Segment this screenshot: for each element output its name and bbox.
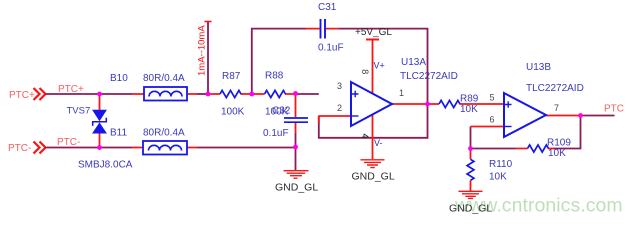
resistor R89 <box>428 94 505 116</box>
svg-text:5: 5 <box>490 93 495 103</box>
svg-text:C32: C32 <box>272 106 291 117</box>
junction node R87/R88 <box>249 92 254 97</box>
svg-text:B10: B10 <box>110 73 128 84</box>
capacitor C32 <box>263 94 308 148</box>
svg-text:8: 8 <box>360 69 370 74</box>
svg-text:PTC: PTC <box>604 104 624 115</box>
svg-text:GND_GL: GND_GL <box>352 171 395 183</box>
svg-text:R89: R89 <box>460 94 479 105</box>
svg-text:GND_GL: GND_GL <box>449 203 492 215</box>
junction node U13B output <box>578 113 583 118</box>
bead B10 <box>110 73 197 101</box>
op-amp U13A <box>319 57 458 159</box>
TVS diode TVS7 SMBJ8.0CA <box>67 94 133 171</box>
wire current probe 1mA--10mA <box>197 22 212 95</box>
svg-text:80R/0.4A: 80R/0.4A <box>143 128 185 139</box>
ground GND_GL under U13A <box>352 160 395 183</box>
svg-text:0.1uF: 0.1uF <box>318 43 344 54</box>
power +5V_GL <box>355 27 392 93</box>
svg-text:B11: B11 <box>110 128 127 139</box>
junction node TVS top <box>97 92 102 97</box>
svg-text:10K: 10K <box>548 148 566 159</box>
svg-text:U13B: U13B <box>526 62 551 73</box>
wire R88 to pin3 <box>296 93 319 95</box>
port PTC+ <box>9 88 46 101</box>
capacitor C31 <box>306 2 344 54</box>
wire PTC+ left <box>46 93 133 95</box>
svg-text:+5V_GL: +5V_GL <box>355 27 392 38</box>
resistor R110 <box>467 149 513 192</box>
svg-text:R88: R88 <box>265 71 284 82</box>
junction node bead B10 out <box>206 92 211 97</box>
svg-text:R110: R110 <box>489 159 513 170</box>
svg-text:V+: V+ <box>374 61 385 71</box>
svg-text:7: 7 <box>554 103 559 113</box>
svg-text:TLC2272AID: TLC2272AID <box>526 83 584 94</box>
wire PTC+ mid <box>197 93 208 95</box>
svg-text:6: 6 <box>490 115 495 125</box>
svg-text:TLC2272AID: TLC2272AID <box>400 71 458 82</box>
svg-text:TVS7: TVS7 <box>67 106 91 117</box>
resistor R109 <box>516 138 572 160</box>
bead B11 <box>110 128 197 155</box>
svg-text:0.1uF: 0.1uF <box>263 128 289 139</box>
wire C32 to ground <box>295 148 297 171</box>
svg-text:100K: 100K <box>221 107 245 118</box>
junction node C32 bottom <box>293 145 298 150</box>
wire R109 right to output <box>554 116 581 149</box>
wire C31 feedback loop <box>252 29 428 104</box>
wire output PTC <box>581 115 615 117</box>
svg-text:PTC-: PTC- <box>8 143 31 154</box>
svg-text:GND_GL: GND_GL <box>275 182 318 194</box>
ground GND_GL under R110 <box>449 191 492 214</box>
svg-text:V-: V- <box>374 138 383 148</box>
svg-text:80R/0.4A: 80R/0.4A <box>143 73 185 84</box>
svg-text:3: 3 <box>337 81 342 91</box>
wire R109 left <box>471 148 516 150</box>
svg-text:PTC-: PTC- <box>57 137 80 148</box>
port PTC- <box>8 142 46 155</box>
svg-text:R109: R109 <box>547 138 571 149</box>
svg-text:1mA--10mA: 1mA--10mA <box>197 25 208 76</box>
svg-text:2: 2 <box>337 103 342 113</box>
junction node TVS bottom <box>97 145 102 150</box>
wire U13A feedback loop <box>319 104 428 138</box>
junction node R88/C32 <box>293 91 298 96</box>
svg-text:10K: 10K <box>489 172 507 183</box>
svg-text:SMBJ8.0CA: SMBJ8.0CA <box>78 160 133 171</box>
wire PTC- left <box>46 147 133 149</box>
svg-text:PTC+: PTC+ <box>9 90 35 101</box>
wire PTC- to C32 <box>197 147 296 149</box>
svg-text:4: 4 <box>360 134 370 139</box>
svg-text:U13A: U13A <box>401 57 426 68</box>
svg-text:10K: 10K <box>460 104 478 115</box>
junction node U13A output <box>425 102 430 107</box>
resistor R88 <box>252 71 296 118</box>
svg-text:C31: C31 <box>318 2 337 13</box>
resistor R87 <box>208 71 252 118</box>
op-amp U13B <box>471 62 584 137</box>
ground GND_GL under C32 <box>275 171 318 194</box>
wire pin6 loop vertical <box>470 127 472 149</box>
svg-text:R87: R87 <box>222 71 241 82</box>
svg-text:1: 1 <box>399 88 404 98</box>
junction node R110 top <box>468 146 473 151</box>
